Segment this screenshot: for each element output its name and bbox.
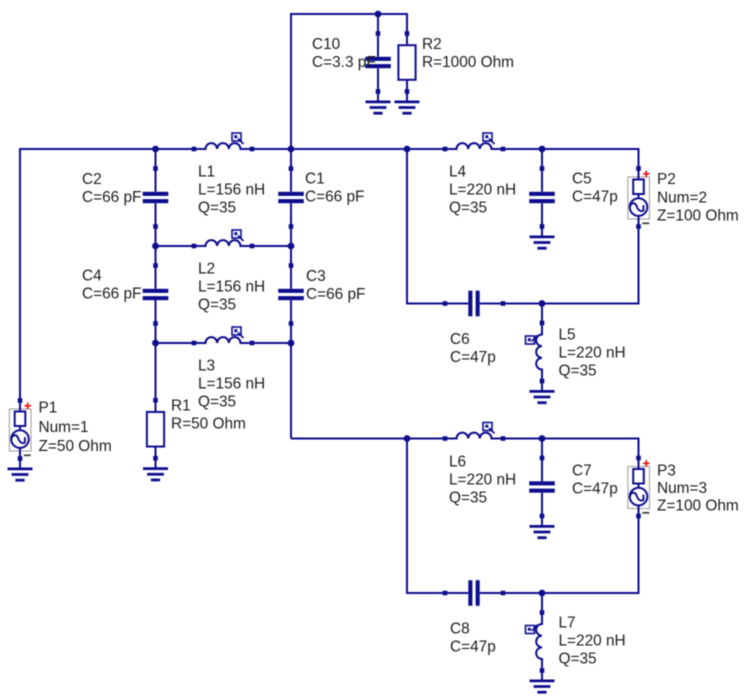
svg-text:Q=35: Q=35 <box>198 297 236 314</box>
wire <box>290 324 292 344</box>
resistor R2 <box>398 31 514 94</box>
svg-text:L=156 nH: L=156 nH <box>198 279 265 296</box>
wire <box>503 592 542 594</box>
node n12 <box>539 590 546 597</box>
node n5 <box>152 243 159 250</box>
svg-text:L5: L5 <box>559 327 576 344</box>
capacitor C4 <box>82 263 168 326</box>
wire <box>503 438 542 440</box>
wire <box>542 227 639 304</box>
ground <box>143 458 168 480</box>
svg-text:C=47p: C=47p <box>572 481 618 498</box>
wire <box>155 343 157 401</box>
svg-text:L6: L6 <box>449 454 466 471</box>
wire <box>407 438 445 440</box>
wire <box>290 246 292 266</box>
ground <box>530 671 555 693</box>
wire <box>541 304 543 324</box>
wire <box>541 593 543 613</box>
wire <box>378 14 407 34</box>
wire <box>407 149 445 304</box>
svg-text:Q=35: Q=35 <box>559 363 597 380</box>
node n11 <box>539 435 546 442</box>
svg-text:L=220 nH: L=220 nH <box>559 345 626 362</box>
svg-text:Q=35: Q=35 <box>449 200 487 217</box>
svg-text:C1: C1 <box>305 171 325 188</box>
svg-text:Num=1: Num=1 <box>39 419 89 436</box>
svg-text:C=66 pF: C=66 pF <box>82 189 141 206</box>
inductor L4 <box>443 133 516 217</box>
ground <box>530 381 555 403</box>
svg-text:R2: R2 <box>422 36 442 53</box>
svg-text:L1: L1 <box>198 164 215 181</box>
svg-text:C7: C7 <box>572 463 592 480</box>
wire <box>290 227 292 247</box>
svg-text:Z=100 Ohm: Z=100 Ohm <box>657 498 739 515</box>
inductor L5 <box>526 321 626 384</box>
svg-text:C=47p: C=47p <box>450 639 496 656</box>
node n2 <box>288 146 295 153</box>
wire <box>542 149 639 169</box>
wire <box>252 148 291 150</box>
wire <box>155 149 157 169</box>
wire <box>542 439 639 459</box>
node n7 <box>152 340 159 347</box>
wire <box>155 246 157 266</box>
capacitor C5 <box>529 166 618 229</box>
wire <box>156 148 195 150</box>
inductor L1 <box>192 133 265 217</box>
wire <box>541 149 543 169</box>
svg-text:C2: C2 <box>82 171 102 188</box>
node n4 <box>539 146 546 153</box>
svg-text:Q=35: Q=35 <box>449 490 487 507</box>
wire <box>407 148 445 150</box>
svg-text:L=220 nH: L=220 nH <box>449 472 516 489</box>
wire <box>291 438 407 440</box>
capacitor C10 <box>312 31 391 94</box>
wire <box>291 14 378 149</box>
capacitor C2 <box>82 166 168 229</box>
wire <box>155 227 157 247</box>
wire <box>290 149 292 169</box>
node n1 <box>152 146 159 153</box>
svg-text:C=66 pF: C=66 pF <box>82 286 141 303</box>
svg-text:L3: L3 <box>198 358 215 375</box>
svg-text:R=50 Ohm: R=50 Ohm <box>171 416 246 433</box>
node n8 <box>288 340 295 347</box>
wire <box>156 245 195 247</box>
wire <box>252 245 291 247</box>
svg-text:C=66 pF: C=66 pF <box>305 189 364 206</box>
wire <box>156 342 195 344</box>
wire <box>252 342 291 344</box>
svg-text:R1: R1 <box>171 398 191 415</box>
svg-text:P2: P2 <box>657 171 676 188</box>
port P1 <box>9 398 111 461</box>
wire <box>407 439 445 594</box>
svg-text:Q=35: Q=35 <box>559 651 597 668</box>
svg-text:C5: C5 <box>572 171 592 188</box>
svg-text:P1: P1 <box>39 400 58 417</box>
port P3 <box>628 456 739 519</box>
ground <box>530 516 555 538</box>
svg-text:L=156 nH: L=156 nH <box>198 182 265 199</box>
svg-text:C4: C4 <box>82 268 102 285</box>
node n9 <box>539 300 546 307</box>
svg-text:C8: C8 <box>450 621 470 638</box>
node n3 <box>404 146 411 153</box>
svg-text:Z=100 Ohm: Z=100 Ohm <box>657 208 739 225</box>
capacitor C7 <box>529 456 618 519</box>
svg-text:C10: C10 <box>312 36 340 53</box>
svg-text:C6: C6 <box>450 331 470 348</box>
svg-text:L4: L4 <box>449 164 467 181</box>
svg-text:L=220 nH: L=220 nH <box>559 633 626 650</box>
svg-text:Q=35: Q=35 <box>198 394 236 411</box>
svg-text:L=220 nH: L=220 nH <box>449 182 516 199</box>
svg-text:R=1000 Ohm: R=1000 Ohm <box>422 54 514 71</box>
svg-text:C=66 pF: C=66 pF <box>306 286 365 303</box>
svg-text:Q=35: Q=35 <box>198 200 236 217</box>
node top <box>375 11 382 18</box>
capacitor C6 <box>443 291 506 366</box>
svg-text:C=47p: C=47p <box>572 189 618 206</box>
node n6 <box>288 243 295 250</box>
svg-text:P3: P3 <box>657 463 676 480</box>
wire <box>377 14 379 34</box>
svg-text:L2: L2 <box>198 261 215 278</box>
wire <box>20 149 156 401</box>
ground <box>8 459 33 481</box>
inductor L7 <box>526 610 626 673</box>
capacitor C1 <box>278 166 364 229</box>
port P2 <box>628 166 739 229</box>
ground <box>366 92 391 114</box>
resistor R1 <box>147 398 246 461</box>
inductor L3 <box>192 327 265 411</box>
svg-text:Z=50 Ohm: Z=50 Ohm <box>39 438 112 455</box>
svg-text:L=156 nH: L=156 nH <box>198 376 265 393</box>
svg-text:C=47p: C=47p <box>450 349 496 366</box>
svg-text:Num=2: Num=2 <box>657 189 707 206</box>
inductor L6 <box>443 423 516 507</box>
wire <box>290 343 292 439</box>
capacitor C8 <box>443 580 506 655</box>
capacitor C3 <box>278 263 365 326</box>
svg-text:Num=3: Num=3 <box>657 480 707 497</box>
ground <box>395 92 420 114</box>
wire <box>291 148 407 150</box>
ground <box>530 227 555 249</box>
svg-text:L7: L7 <box>559 615 576 632</box>
svg-text:C=3.3 pF: C=3.3 pF <box>312 54 376 71</box>
wire <box>541 439 543 459</box>
wire <box>503 148 542 150</box>
wire <box>155 324 157 344</box>
wire <box>503 303 542 305</box>
inductor L2 <box>192 230 265 314</box>
svg-text:C3: C3 <box>306 268 326 285</box>
wire <box>542 516 639 593</box>
node n10 <box>404 435 411 442</box>
